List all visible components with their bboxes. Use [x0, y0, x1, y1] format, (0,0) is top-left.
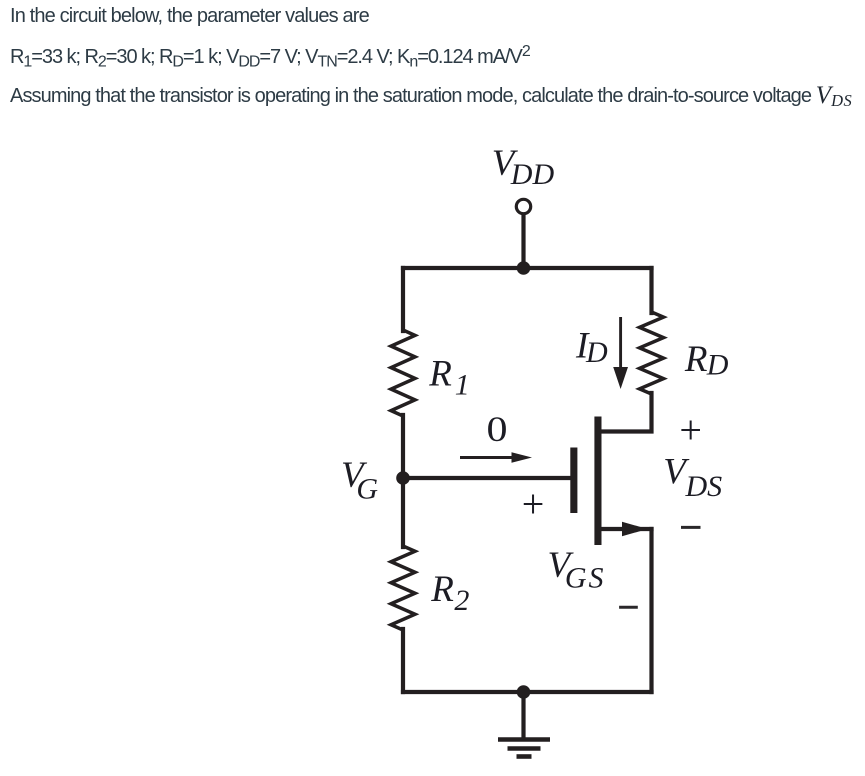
transistor M1 gate bar — [570, 448, 577, 514]
current arrow 0 (gate current) — [460, 452, 532, 463]
svg-text:2: 2 — [454, 584, 469, 617]
wire left rail lower — [401, 629, 405, 692]
junction dot top — [517, 261, 531, 275]
resistor RD — [640, 312, 664, 394]
wire left rail upper — [401, 268, 405, 331]
svg-text:D: D — [585, 336, 608, 369]
ground — [498, 740, 550, 757]
svg-text:D: D — [706, 348, 729, 381]
svg-text:DS: DS — [685, 470, 723, 503]
svg-text:+: + — [522, 482, 545, 527]
resistor R1 — [391, 330, 415, 416]
transistor M1 channel bar — [594, 417, 601, 546]
junction dot bottom — [517, 685, 531, 699]
current arrow ID — [613, 317, 628, 389]
wire VDD stub — [521, 214, 525, 268]
wire right rail lower — [649, 529, 653, 692]
wire top rail — [403, 266, 652, 270]
wire ground stub — [521, 692, 525, 737]
node VG dot — [396, 471, 410, 485]
question text line 2 — [10, 47, 530, 67]
wire gate — [403, 476, 571, 480]
wire left rail middle — [401, 415, 405, 547]
svg-text:G: G — [356, 473, 378, 506]
wire right rail upper — [649, 268, 653, 313]
label minus VDS — [681, 526, 701, 529]
label minus VGS — [619, 606, 638, 609]
svg-text:+: + — [679, 408, 702, 453]
transistor M1 source arrowhead — [622, 522, 648, 537]
svg-text:DD: DD — [510, 158, 555, 191]
svg-text:R: R — [684, 339, 708, 380]
wire drain connection — [598, 393, 652, 432]
question text line 1 — [10, 6, 369, 26]
svg-text:GS: GS — [565, 561, 606, 594]
svg-text:R: R — [428, 354, 452, 395]
svg-text:0: 0 — [487, 409, 508, 449]
svg-text:1: 1 — [455, 368, 470, 401]
wire bottom rail — [403, 690, 652, 694]
terminal VDD — [516, 199, 530, 213]
resistor R2 — [391, 546, 415, 630]
question text line 3 — [10, 86, 852, 107]
svg-text:R: R — [430, 569, 454, 610]
wire source — [598, 527, 652, 531]
